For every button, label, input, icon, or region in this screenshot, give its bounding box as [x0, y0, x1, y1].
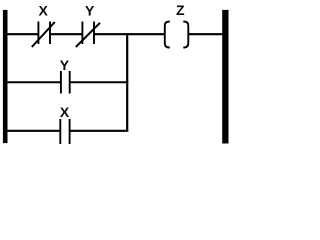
right power rail [222, 10, 228, 144]
wire: bottom rung from contact X to junction [71, 130, 129, 132]
svg-text:Z: Z [176, 2, 185, 18]
wire: from coil to right rail [188, 33, 223, 35]
wire: top rung from contact Y to coil [95, 33, 165, 35]
svg-text:X: X [60, 104, 70, 120]
contact X (NO) right bar [69, 119, 71, 144]
contact Y (NO) right bar [69, 71, 71, 94]
contact X slash [32, 22, 55, 47]
svg-text:Y: Y [85, 2, 95, 18]
left power rail [3, 10, 8, 143]
contact Y (NO) left bar [60, 71, 62, 94]
contact Y slash [76, 23, 100, 47]
contact Y (NC) left bar [81, 22, 83, 45]
wire: middle rung from contact Y to junction [71, 81, 129, 83]
coil Z left bracket [165, 22, 170, 48]
wire: top rung between contact X and contact Y [51, 33, 82, 35]
svg-text:X: X [39, 2, 49, 18]
contact X (NO) left bar [59, 119, 61, 144]
contact X (NC) left bar [37, 22, 39, 45]
svg-text:Y: Y [60, 57, 70, 73]
contact Y (NC) right bar [93, 22, 95, 45]
wire: middle rung from left rail to contact Y [7, 81, 60, 83]
contact X (NC) right bar [49, 22, 51, 45]
wire: bottom rung from left rail to contact X [7, 130, 59, 132]
node: branch junction vertical bus [126, 33, 128, 131]
coil Z right bracket [183, 22, 188, 48]
wire: top rung from left rail to contact X [7, 33, 37, 35]
